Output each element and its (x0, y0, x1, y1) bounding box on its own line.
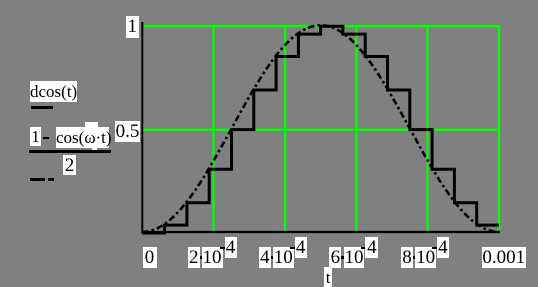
gridline y=1 (143, 25, 501, 27)
exponent 4 (295, 237, 307, 258)
gridline y=0.5 (143, 129, 501, 131)
y tick label 1 (126, 16, 139, 38)
base 10 (273, 247, 294, 268)
trace dcos(t) staircase (142, 26, 499, 233)
legend: denominator 2 (63, 155, 76, 175)
x tick label 0 (143, 247, 157, 268)
x tick label 2e-4: mantissa 2 (188, 247, 200, 268)
gridline x=6e-4 (355, 25, 357, 233)
y axis (141, 22, 143, 233)
trace (1-cos(w0 t))/2 dash-dot (142, 25, 499, 232)
legend: numerator cos(w0 t) (56, 127, 109, 148)
multiply dot (271, 256, 274, 259)
x axis (141, 231, 500, 233)
legend: minus sign (43, 137, 50, 140)
x axis variable t (324, 267, 333, 287)
base 10 (202, 247, 223, 268)
gridline x=2e-4 (212, 25, 214, 233)
exponent minus (361, 247, 366, 250)
exponent minus (432, 247, 437, 250)
exponent 4 (437, 237, 449, 258)
exponent minus (220, 247, 225, 250)
legend: solid line sample (31, 106, 53, 109)
x tick label 6e-4: mantissa 6 (329, 247, 341, 268)
legend: dcos(t) label (30, 81, 77, 102)
x tick label 4e-4: mantissa 4 (259, 247, 272, 268)
gridline x=0.001 right edge (498, 25, 500, 233)
x tick label 8e-4: mantissa 8 (401, 247, 413, 268)
exponent minus (290, 247, 295, 250)
legend: fraction bar (29, 150, 111, 153)
gridline x=4e-4 (284, 25, 286, 233)
legend: fraction numerator 1 (30, 127, 41, 146)
base 10 (415, 247, 436, 268)
legend: dash-dot sample dot (48, 178, 55, 181)
multiply dot (413, 256, 416, 259)
base 10 (344, 247, 365, 268)
multiply dot (200, 256, 203, 259)
exponent 4 (365, 237, 378, 258)
exponent 4 (225, 237, 237, 258)
x tick label 0.001 (482, 247, 526, 269)
multiply dot (341, 256, 344, 259)
y tick label 0.5 (115, 121, 141, 142)
legend: dash-dot sample dash (30, 178, 45, 181)
legend: numerator box bump below (92, 148, 98, 151)
gridline x=8e-4 (426, 25, 428, 233)
legend: numerator cos(w0 t) box bump above (85, 122, 99, 127)
